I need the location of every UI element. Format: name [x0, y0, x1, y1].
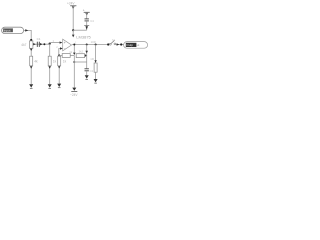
op-amp U1: [63, 36, 91, 51]
svg-text:−: −: [64, 47, 66, 51]
svg-text:2: 2: [56, 45, 58, 49]
junction arrow onto C2 column: [85, 54, 87, 57]
resistor R5: [76, 49, 84, 57]
svg-text:Input: Input: [4, 29, 11, 33]
svg-text:1k: 1k: [63, 59, 67, 63]
junction arrow: [117, 43, 120, 45]
wire to op-amp + input: [50, 42, 62, 44]
node B dot: [43, 43, 45, 45]
svg-text:1k: 1k: [53, 59, 57, 63]
svg-text:2k2: 2k2: [79, 49, 84, 53]
wire input to junction: [24, 30, 32, 39]
svg-text:C2: C2: [90, 69, 94, 73]
wire inverting input: [59, 49, 63, 56]
ground: [57, 84, 61, 88]
svg-text:+24V: +24V: [67, 1, 75, 5]
wire R7 to ground: [58, 66, 60, 84]
svg-text:4k: 4k: [34, 59, 38, 63]
wire R3 column: [49, 44, 51, 57]
capacitor C1: [37, 37, 41, 47]
wire C4 bottom: [86, 21, 88, 30]
svg-text:1k: 1k: [69, 50, 73, 54]
ground: [85, 75, 89, 79]
wire below R1 with junction arrow: [30, 48, 32, 56]
svg-text:Outp: Outp: [126, 43, 133, 47]
power + terminal of C4: [83, 8, 90, 16]
wire +24V rail: [72, 6, 74, 30]
power +24V: [67, 1, 76, 9]
ground: [48, 84, 52, 88]
wire R6 to ground: [95, 72, 97, 79]
svg-text:10R: 10R: [91, 40, 96, 44]
junction arrow at + input: [60, 41, 63, 43]
svg-text:LM3875: LM3875: [76, 36, 91, 40]
wire C4 top: [86, 13, 88, 19]
wire output line: [72, 44, 108, 46]
node Output: [124, 42, 148, 49]
resistor R1: [21, 41, 33, 48]
resistor R7: [58, 56, 67, 66]
resistor R4: [62, 50, 73, 58]
junction arrow at - input: [60, 47, 63, 49]
svg-text:ut: ut: [137, 43, 140, 47]
node G dot: [86, 44, 88, 46]
node C dot: [49, 43, 51, 45]
junction arrow input: [25, 29, 28, 31]
node J dot: [120, 43, 122, 45]
svg-text:S1: S1: [112, 38, 116, 42]
resistor R6: [90, 40, 97, 72]
wire V+ pin drop: [72, 30, 74, 35]
wire output drop to feedback: [73, 45, 75, 54]
node A dot: [30, 39, 32, 41]
wire feedback line: [59, 54, 74, 56]
svg-text:C1: C1: [37, 37, 41, 41]
wire R3 to ground: [49, 66, 51, 84]
resistor R3: [48, 56, 56, 66]
power -24V terminal: [70, 88, 78, 97]
capacitor C4: [85, 19, 95, 23]
node D dot: [58, 54, 60, 56]
node E dot: [73, 61, 75, 63]
wire C2 to ground: [86, 71, 88, 75]
wire C2 column: [86, 45, 88, 69]
node Input: [2, 27, 24, 33]
switch S1: [109, 38, 115, 45]
resistor R2: [30, 56, 38, 66]
wire horizontal y62: [74, 61, 86, 63]
wire feedback node down: [73, 55, 75, 87]
node F dot: [73, 44, 75, 46]
node I dot (switch left): [107, 43, 109, 45]
junction arrow: [40, 43, 43, 45]
svg-text:−24V: −24V: [70, 93, 78, 97]
ground: [94, 79, 98, 83]
capacitor C2: [85, 69, 94, 73]
wire main signal line: [33, 43, 50, 45]
svg-text:+: +: [64, 41, 66, 45]
junction bar and arrow onto rail: [84, 26, 89, 30]
svg-text:1R: 1R: [90, 57, 94, 61]
wire switch to output: [116, 44, 124, 46]
junction arrow: [33, 43, 36, 45]
wire R2 to ground: [30, 66, 32, 84]
svg-text:4k7: 4k7: [21, 43, 26, 47]
ground: [29, 84, 33, 88]
node K dot: [72, 29, 74, 31]
node H dot: [95, 44, 97, 46]
wire rail to C4 column: [73, 29, 87, 31]
svg-text:C4: C4: [90, 19, 94, 23]
svg-text:+: +: [83, 8, 85, 12]
